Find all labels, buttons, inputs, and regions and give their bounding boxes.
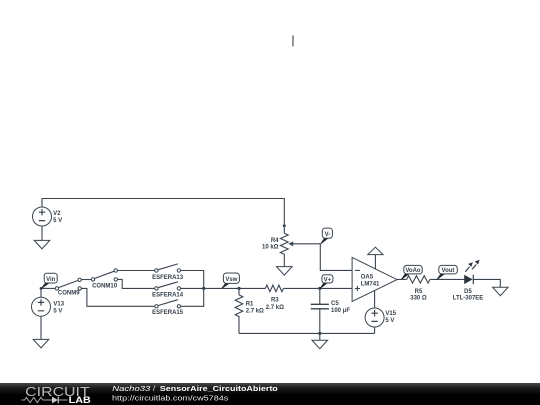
svg-text:R1: R1: [246, 301, 254, 307]
svg-text:ESFERA15: ESFERA15: [152, 310, 184, 316]
svg-text:V2: V2: [53, 211, 61, 217]
svg-text:Vout: Vout: [442, 268, 455, 274]
svg-text:http://circuitlab.com/cw5784s: http://circuitlab.com/cw5784s: [112, 393, 229, 402]
svg-text:R3: R3: [271, 298, 279, 304]
svg-text:D5: D5: [464, 289, 472, 295]
svg-text:V+: V+: [324, 277, 332, 283]
svg-text:Vin: Vin: [46, 277, 56, 283]
svg-text:CONM9: CONM9: [58, 291, 80, 297]
svg-text:330 Ω: 330 Ω: [410, 296, 427, 302]
svg-text:ESFERA14: ESFERA14: [152, 292, 184, 298]
svg-text:100 μF: 100 μF: [331, 308, 350, 314]
svg-text:R4: R4: [271, 238, 279, 244]
svg-text:V15: V15: [385, 311, 396, 317]
svg-text:VoAo: VoAo: [405, 268, 421, 274]
svg-text:5 V: 5 V: [385, 318, 394, 324]
svg-text:2.7 kΩ: 2.7 kΩ: [266, 305, 284, 311]
svg-text:Nacho33: Nacho33: [112, 384, 150, 393]
svg-text:OA5: OA5: [361, 274, 374, 280]
svg-text:LTL-307EE: LTL-307EE: [453, 296, 484, 302]
svg-text:C5: C5: [331, 301, 339, 307]
svg-text:LM741: LM741: [361, 281, 380, 287]
svg-text:ESFERA13: ESFERA13: [152, 275, 184, 281]
svg-text:Vsw: Vsw: [225, 277, 237, 283]
svg-text:5 V: 5 V: [53, 218, 62, 224]
svg-text:10 kΩ: 10 kΩ: [262, 244, 279, 250]
svg-text:CONM10: CONM10: [92, 284, 118, 290]
svg-text:R5: R5: [415, 289, 423, 295]
svg-text:2.7 kΩ: 2.7 kΩ: [246, 308, 264, 314]
svg-text:V13: V13: [53, 301, 64, 307]
svg-text:5 V: 5 V: [53, 308, 62, 314]
svg-text:LAB: LAB: [69, 395, 92, 405]
svg-text:V-: V-: [325, 232, 331, 238]
svg-text:SensorAire_CircuitoAbierto: SensorAire_CircuitoAbierto: [160, 384, 279, 393]
